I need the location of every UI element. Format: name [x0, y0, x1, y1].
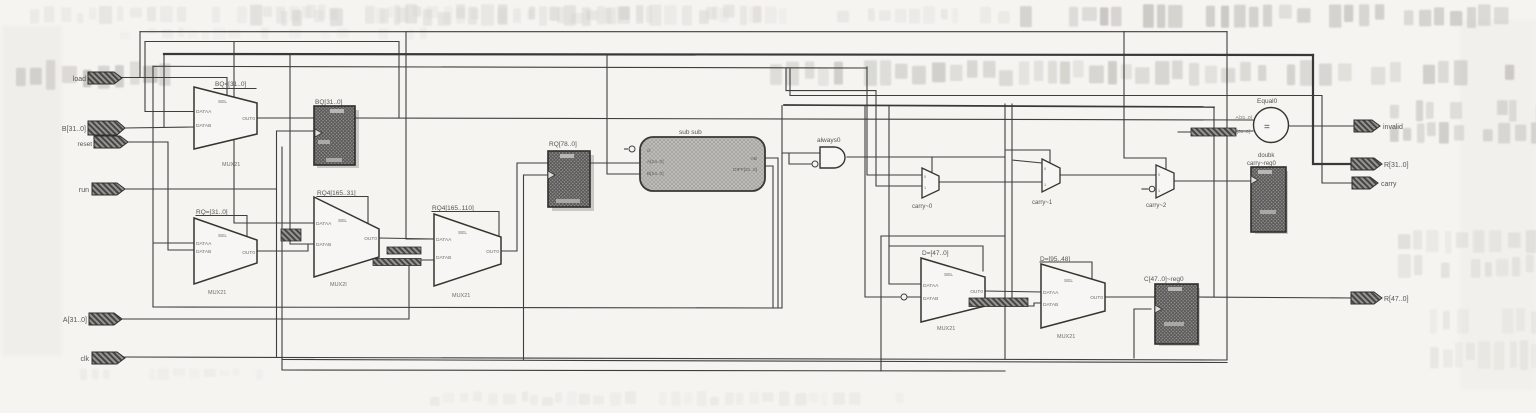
- svg-text:OUT0: OUT0: [1090, 295, 1103, 301]
- output pin R[47:0]: [1351, 292, 1409, 304]
- register C[47:0]~reg0: [1144, 276, 1200, 346]
- wire reset routing: [128, 142, 194, 250]
- input pin B[31:0]: [62, 121, 125, 135]
- wire thick bus rail y54: [164, 54, 1313, 55]
- bleed-through text band two: [16, 60, 1536, 370]
- svg-text:D=[95..48]: D=[95..48]: [1040, 256, 1070, 263]
- svg-text:DIFF[31..0]: DIFF[31..0]: [733, 167, 757, 173]
- net label bar M4 DATAA: [387, 247, 421, 254]
- wire M5 sel loop: [889, 246, 983, 271]
- input pin clk: [80, 352, 125, 364]
- input pin reset: [78, 136, 128, 148]
- wire sel drop to M3 DATAB: [290, 54, 314, 244]
- svg-text:doubk: doubk: [1258, 153, 1275, 159]
- input pin run: [79, 183, 125, 195]
- svg-text:DATAA: DATAA: [196, 109, 212, 115]
- wire M4 out up to RQ reg: [501, 163, 548, 251]
- wire B[31:0] to mux DATAB: [125, 127, 194, 128]
- svg-text:RQ[78..0]: RQ[78..0]: [549, 141, 577, 148]
- wire carry~2 inB stub: [1142, 188, 1148, 190]
- bleed-through caption bottom: [80, 368, 903, 406]
- svg-text:OUT0: OUT0: [364, 236, 377, 242]
- wire mux M1 out to BQ reg: [257, 117, 314, 119]
- svg-text:DATAB: DATAB: [196, 249, 211, 255]
- mux D=[47:0] M5: [901, 250, 985, 332]
- input pin load: [73, 72, 122, 84]
- block sub sub: [624, 129, 765, 191]
- svg-text:1: 1: [1158, 189, 1160, 193]
- wire drop from bus rail x1214: [1213, 107, 1215, 297]
- wire to M5 DATAB bubble: [865, 106, 921, 297]
- svg-text:R[31..0]: R[31..0]: [1384, 162, 1409, 169]
- wire to gate input A: [782, 152, 820, 154]
- svg-text:MUX21: MUX21: [222, 162, 240, 168]
- wire sub AB out down: [763, 158, 778, 307]
- svg-text:DATAB: DATAB: [1043, 302, 1058, 308]
- svg-text:sub sub: sub sub: [679, 129, 702, 136]
- svg-text:SEL: SEL: [218, 233, 227, 239]
- svg-text:carry~reg0: carry~reg0: [1247, 161, 1277, 167]
- svg-text:DATAA: DATAA: [436, 237, 452, 243]
- svg-text:OUT0: OUT0: [242, 250, 255, 256]
- svg-text:RQ4[165..110]: RQ4[165..110]: [432, 205, 474, 212]
- output pin R[31:0]: [1351, 158, 1409, 170]
- wire thick drop to R[31:0]: [1313, 55, 1351, 164]
- svg-text:MUX21: MUX21: [208, 290, 226, 296]
- svg-text:BQ=[31..0]: BQ=[31..0]: [215, 81, 246, 88]
- svg-text:SEL: SEL: [1064, 278, 1073, 284]
- svg-text:carry~0: carry~0: [912, 204, 933, 210]
- svg-text:B[24..0]: B[24..0]: [647, 171, 664, 177]
- wire M2 out to M3: [258, 244, 308, 251]
- wire to M5 DATAA: [889, 106, 921, 284]
- wire rail to carry pin: [790, 68, 1352, 183]
- svg-text:Equal0: Equal0: [1257, 98, 1278, 105]
- wire D-mux box left: [880, 236, 882, 371]
- wire carry~2 out to reg: [1174, 180, 1251, 182]
- wire run to sel rail: [125, 188, 277, 190]
- svg-text:0: 0: [1158, 173, 1160, 177]
- wire carry~0 sel drop: [931, 157, 933, 172]
- mux carry~0: [912, 168, 939, 210]
- svg-text:OUT0: OUT0: [486, 249, 499, 255]
- svg-text:RQ=[31..0]: RQ=[31..0]: [196, 209, 228, 216]
- wire sub DIFF out down: [763, 166, 773, 307]
- wire label leader M4: [432, 212, 499, 237]
- svg-text:invalid: invalid: [1383, 124, 1403, 131]
- wire M5 out to M6: [985, 291, 1041, 292]
- comparator Equal0: [1233, 98, 1288, 143]
- net label bar M5 out: [969, 298, 1028, 307]
- wire clk riser RQ: [524, 175, 549, 360]
- svg-text:MUX21: MUX21: [937, 326, 955, 332]
- svg-text:DATAB: DATAB: [923, 296, 938, 302]
- wire M3 out to M4 DATAA: [379, 238, 434, 239]
- svg-text:SEL: SEL: [458, 230, 467, 236]
- wire rail drop to sub B: [607, 55, 640, 174]
- wire B bus riser: [163, 54, 165, 127]
- wire label leader M1: [214, 88, 256, 90]
- svg-text:MUX21: MUX21: [1057, 334, 1075, 340]
- wire drop to carry~2 sel: [1124, 32, 1166, 172]
- wire label leader M3: [317, 197, 368, 224]
- wire long vertical x782: [781, 106, 783, 309]
- and gate always0: [812, 137, 845, 168]
- net label bar M4 DATAB: [373, 259, 421, 266]
- svg-text:run: run: [79, 187, 89, 194]
- svg-text:C[47..0]~reg0: C[47..0]~reg0: [1144, 276, 1184, 283]
- svg-text:=: =: [1264, 122, 1270, 133]
- wire D-mux box top: [881, 235, 1004, 237]
- wire right loop vertical: [1226, 32, 1228, 360]
- wire vertical x1005: [1004, 104, 1006, 359]
- bleed-through text top strip: [30, 4, 1509, 40]
- output pin invalid: [1354, 120, 1403, 132]
- svg-text:SEL: SEL: [338, 218, 347, 224]
- svg-text:B[31..0]: B[31..0]: [62, 126, 86, 133]
- svg-text:OUT0: OUT0: [970, 289, 983, 295]
- wire carry~1 out to carry~2: [1060, 174, 1156, 176]
- net label box on M3 DATAB: [281, 229, 301, 241]
- svg-text:SEL: SEL: [218, 99, 227, 105]
- svg-text:DATAA: DATAA: [1043, 290, 1059, 296]
- svg-text:carry~1: carry~1: [1032, 200, 1053, 206]
- wire clk riser C reg: [1134, 309, 1151, 358]
- wire gate out: [847, 156, 1005, 158]
- svg-text:always0: always0: [817, 137, 841, 144]
- svg-text:DATAB: DATAB: [436, 255, 451, 261]
- register RQ[78:0]: [548, 141, 594, 211]
- svg-text:load: load: [73, 76, 86, 83]
- wire bottom third rail: [282, 370, 1005, 371]
- net label bar Equal0 B: [1191, 128, 1236, 136]
- svg-text:A[31..0]: A[31..0]: [63, 317, 87, 324]
- wire BQ feedback to mux DATAA: [145, 42, 194, 112]
- wire drop to carry~1 inA and M6 DATAB: [1012, 104, 1042, 306]
- wire rail to carry~0 inB: [786, 68, 922, 186]
- thick wires: [164, 54, 1351, 164]
- svg-text:carry: carry: [1381, 181, 1397, 188]
- svg-text:BQ[31..0]: BQ[31..0]: [315, 99, 343, 106]
- svg-text:A[31..0]: A[31..0]: [1235, 115, 1252, 121]
- wire C reg Q to R[47:0] pin: [1198, 297, 1351, 298]
- svg-text:DATAB: DATAB: [316, 242, 331, 248]
- mux D=[95:48] M6: [1040, 256, 1105, 340]
- svg-text:reset: reset: [78, 141, 93, 148]
- input pin A[31:0]: [63, 313, 122, 325]
- output pin carry: [1352, 177, 1397, 189]
- wire ena vertical to BQ: [277, 131, 315, 357]
- mux carry~2: [1146, 165, 1174, 209]
- wire RQ Q to sub A: [590, 162, 640, 164]
- wire crossing vertical: [281, 147, 283, 370]
- svg-text:AB: AB: [751, 156, 757, 162]
- svg-text:0: 0: [924, 175, 926, 179]
- svg-text:R[47..0]: R[47..0]: [1384, 296, 1409, 303]
- svg-text:OUT0: OUT0: [242, 116, 255, 122]
- wire rail to carry~0 inA: [867, 67, 922, 175]
- svg-text:D=[47..0]: D=[47..0]: [922, 250, 949, 257]
- svg-text:MUX2I: MUX2I: [330, 282, 347, 288]
- svg-text:carry~2: carry~2: [1146, 203, 1167, 209]
- wire carry~0 out to carry~1: [939, 181, 1042, 183]
- wire A[31:0] to mux RQ4 DATAB: [122, 260, 434, 319]
- wire Equal0 B stub: [1178, 131, 1253, 132]
- svg-text:A[24..0]: A[24..0]: [647, 159, 664, 165]
- register carry~reg0: [1247, 153, 1288, 234]
- svg-text:0: 0: [1044, 167, 1046, 171]
- wire label leader M2: [196, 216, 247, 237]
- mux RQ4[165..31] M3: [314, 190, 379, 288]
- svg-text:DATAA: DATAA: [316, 221, 332, 227]
- svg-text:SEL: SEL: [944, 272, 953, 278]
- wire load to MUX21 sel: [122, 78, 227, 96]
- svg-text:MUX21: MUX21: [452, 293, 470, 299]
- svg-text:1: 1: [924, 186, 926, 190]
- svg-text:DATAA: DATAA: [923, 283, 939, 289]
- svg-text:1: 1: [1044, 183, 1046, 187]
- wire Equal0 out to invalid pin: [1289, 125, 1354, 127]
- wire to gate input B bubble: [789, 153, 811, 164]
- wire M6 out to C reg: [1105, 296, 1155, 298]
- register BQ[31:0]: [314, 99, 359, 168]
- wire feedback rail y66: [153, 66, 867, 68]
- mux carry~1: [1032, 159, 1060, 206]
- wire clk trunk bottom: [125, 357, 1227, 360]
- svg-text:DATAB: DATAB: [196, 123, 211, 129]
- mux RQ=[31:0] M2: [194, 209, 257, 296]
- svg-text:RQ4[165..31]: RQ4[165..31]: [317, 190, 356, 197]
- wire M2 loop vertical and DATAA: [153, 66, 194, 307]
- wire top rail y31: [140, 31, 1227, 33]
- svg-text:clk: clk: [80, 356, 89, 363]
- svg-text:DATAA: DATAA: [196, 241, 212, 247]
- wire label leader M6: [1040, 262, 1092, 287]
- wire thick rail y105: [784, 105, 1214, 107]
- svg-text:cl: cl: [647, 148, 650, 154]
- mux BQ=[31:0] M1: [194, 81, 257, 168]
- wire top rail y31 left hook: [139, 32, 141, 78]
- wire bottom second trunk: [282, 360, 1227, 363]
- mux RQ4[165..110] M4: [432, 205, 501, 299]
- wire long vertical x402: [406, 32, 434, 239]
- wire BQ reg Q out long to Equal0 A: [355, 118, 1253, 120]
- wire mid trunk: [153, 307, 782, 308]
- wire BQ Q loop top: [145, 42, 399, 224]
- wire carry~1 sel loop: [1006, 150, 1050, 163]
